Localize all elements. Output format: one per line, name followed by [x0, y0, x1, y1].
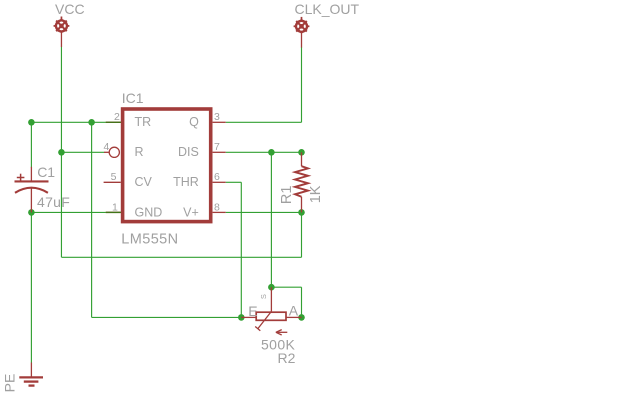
ground symbol PE [19, 363, 43, 386]
svg-text:CLK_OUT: CLK_OUT [295, 1, 360, 17]
potentiometer R2 body [241, 312, 301, 320]
junction at R2 A terminal [298, 314, 305, 321]
pin 2 TR stub [106, 121, 121, 123]
wire DIS branch vertical down to wiper junction [270, 152, 272, 287]
svg-text:R1: R1 [279, 186, 295, 205]
wire RESET net horizontal to pin 4 [61, 151, 104, 153]
junction at DIS branch [268, 149, 275, 156]
potentiometer R2 adjustment arrow [276, 330, 287, 335]
svg-text:E: E [248, 303, 257, 319]
capacitor C1 polarized [15, 167, 49, 213]
junction at R2 wiper [268, 284, 275, 291]
svg-text:C1: C1 [37, 164, 55, 180]
svg-text:A: A [289, 303, 299, 319]
wire GND net vertical C1 bottom to PE [30, 212, 32, 362]
pin 6 THR stub [213, 181, 226, 183]
wire wiper junction horizontal [271, 286, 301, 288]
wire bottom left horizontal to R2 E terminal [92, 316, 242, 318]
supply symbol VCC [54, 17, 70, 48]
wire Q pin 3 horizontal [226, 121, 302, 123]
svg-text:5: 5 [111, 171, 117, 183]
potentiometer R2 wiper [255, 287, 271, 331]
wire VCC net bottom horizontal rail [61, 256, 301, 258]
wire DIS pin 7 horizontal [226, 151, 302, 153]
wire GND net horizontal to pin 1 [31, 211, 105, 213]
wire VCC net vertical from VCC symbol down to bottom rail [60, 47, 62, 257]
svg-text:1: 1 [112, 201, 118, 213]
pin 5 CV stub [104, 181, 121, 183]
wire TR net horizontal to pin 2 [31, 121, 105, 123]
svg-text:R2: R2 [278, 350, 296, 366]
wire GND net overlap on pin 1 stub [106, 211, 121, 213]
wire TR net vertical to C1 top [30, 122, 32, 167]
svg-text:8: 8 [214, 201, 220, 213]
svg-text:6: 6 [214, 171, 220, 183]
supply symbol CLK_OUT [294, 17, 310, 48]
svg-text:DIS: DIS [178, 145, 199, 159]
svg-text:V+: V+ [183, 205, 199, 219]
svg-text:TR: TR [135, 115, 152, 129]
pin 3 Q stub [213, 121, 226, 123]
svg-text:THR: THR [173, 175, 199, 189]
wire VCC net right vertical up to V+ junction [301, 212, 303, 257]
wire V+ pin 8 horizontal [226, 211, 302, 213]
junction at RESET pin 4 branch [58, 149, 65, 156]
svg-text:LM555N: LM555N [121, 231, 178, 247]
svg-text:GND: GND [135, 205, 163, 219]
svg-text:S: S [259, 294, 268, 299]
svg-text:4: 4 [103, 141, 109, 153]
pin 4 R stub with inversion bubble [104, 147, 119, 157]
resistor R1 [295, 152, 308, 212]
svg-text:1K: 1K [308, 185, 324, 203]
junction at R1 bottom V+ [298, 209, 305, 216]
wire vertical down to R2 A terminal [301, 287, 303, 317]
junction at R2 E terminal [238, 314, 245, 321]
junction at TR net left corner [28, 119, 35, 126]
svg-text:2: 2 [114, 111, 120, 123]
svg-text:7: 7 [214, 141, 220, 153]
wire TR net overlap on pin 2 stub [106, 121, 121, 123]
pin 8 V+ stub [213, 211, 226, 213]
junction at TR branch [88, 119, 95, 126]
wire CLK_OUT vertical up [301, 47, 303, 122]
svg-text:47uF: 47uF [37, 194, 70, 210]
svg-text:IC1: IC1 [122, 90, 144, 106]
svg-text:3: 3 [214, 111, 220, 123]
wire THR pin 6 horizontal [226, 181, 242, 183]
wire TR branch vertical down to bottom left rail [91, 122, 93, 317]
IC1 LM555N timer body [123, 109, 211, 222]
junction at R1 top [298, 149, 305, 156]
svg-text:R: R [135, 145, 144, 159]
junction at C1 bottom GND [28, 209, 35, 216]
svg-text:PE: PE [2, 374, 18, 393]
svg-text:CV: CV [135, 175, 153, 189]
svg-text:VCC: VCC [55, 1, 85, 17]
pin 7 DIS stub [213, 151, 226, 153]
wire THR vertical down to E junction [240, 182, 242, 317]
svg-text:Q: Q [189, 115, 199, 129]
wire overlap on pin 2 (drawn over stub) [106, 121, 121, 123]
pin 1 GND stub [106, 211, 121, 213]
wire overlap on pin 1 (drawn over stub) [106, 211, 121, 213]
